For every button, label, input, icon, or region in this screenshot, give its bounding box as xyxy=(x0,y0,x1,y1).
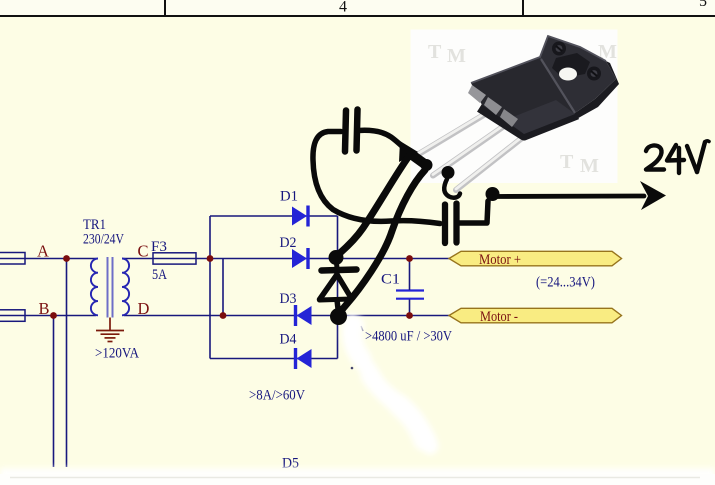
photo watermark TME top-left xyxy=(428,41,617,177)
screw hole white xyxy=(559,68,577,81)
svg-text:C: C xyxy=(138,242,149,261)
frame border line xyxy=(0,15,715,17)
flag Motor + xyxy=(449,251,622,265)
marker capacitor Cx1 left plate xyxy=(345,111,346,152)
junction dot node B xyxy=(50,312,57,319)
marker capacitor Cx1 right plate xyxy=(357,110,358,151)
junction dot node A xyxy=(63,255,70,262)
svg-text:Motor +: Motor + xyxy=(479,252,521,268)
svg-text:Motor -: Motor - xyxy=(480,309,518,325)
white correction smudge xyxy=(350,322,430,446)
svg-text:F3: F3 xyxy=(151,239,167,255)
marker diode cathode bar xyxy=(322,270,357,271)
marker capacitor Cx2 right plate xyxy=(453,204,459,243)
handwritten 24V : digit 2 xyxy=(646,145,664,169)
marker blob at leg 2 xyxy=(408,152,426,165)
stray dot near D4 xyxy=(351,367,354,370)
junction dot after F3 xyxy=(207,255,214,262)
svg-text:M: M xyxy=(580,155,599,177)
marker dot at leg 3 with curl xyxy=(442,166,455,179)
svg-text:C1: C1 xyxy=(381,272,400,288)
fuse F2 (left edge, bottom) xyxy=(0,310,25,322)
svg-text:D4: D4 xyxy=(280,332,297,348)
frame tick 1 xyxy=(164,0,166,15)
front face lower sheen xyxy=(505,100,575,134)
marker wire Cx1 right to leg xyxy=(358,130,411,154)
leg shoulders xyxy=(468,85,486,103)
wire bridge right vertical xyxy=(337,216,339,359)
transistor body (TO-220F package) xyxy=(468,36,619,135)
handwritten 24V : digit 4 xyxy=(667,145,684,161)
svg-text:M: M xyxy=(447,45,466,67)
wire D4 row xyxy=(210,358,338,360)
bottom ledge xyxy=(480,107,577,135)
handwritten 24V : letter V xyxy=(687,146,697,172)
transformer TR1 primary coil xyxy=(91,259,98,316)
front face xyxy=(471,57,575,134)
marker line A leg to bridge top junction xyxy=(337,156,410,256)
marker diode anode lead xyxy=(337,300,339,313)
marker wire loop from Cx1 left to Cx2 xyxy=(313,132,440,224)
screw 2 xyxy=(587,67,601,81)
right dark edge xyxy=(573,61,619,121)
svg-text:5: 5 xyxy=(699,0,707,10)
wire vertical from node A down xyxy=(66,259,68,468)
capacitor C1 symbol xyxy=(396,291,424,299)
wire bridge inner vertical xyxy=(222,259,224,316)
seam xyxy=(541,59,575,113)
frame top band xyxy=(0,0,715,16)
transistor legs xyxy=(413,110,522,190)
marker arrow line to 24V xyxy=(494,194,644,199)
svg-text:4: 4 xyxy=(339,0,347,16)
diode D4 xyxy=(294,348,312,369)
wire bottom net (B/D row) xyxy=(0,315,96,317)
bottom faint line xyxy=(10,477,700,479)
wire vertical from node B down xyxy=(53,316,55,468)
diode D2 xyxy=(292,248,310,269)
wire top net (A/C row) xyxy=(0,258,96,260)
tab face xyxy=(540,36,616,113)
marker arrow head xyxy=(640,181,666,210)
photo of transistor: white background xyxy=(411,30,618,184)
ground symbol xyxy=(96,318,124,342)
fuse F3 xyxy=(153,253,196,264)
marker capacitor Cx2 left plate xyxy=(442,205,448,244)
svg-text:D: D xyxy=(138,299,150,318)
svg-text:>8A/>60V: >8A/>60V xyxy=(249,388,305,404)
frame tick 2 xyxy=(522,0,524,15)
svg-text:A: A xyxy=(37,242,49,261)
wire bridge left vertical xyxy=(209,216,211,359)
fuse F1 (left edge, top) xyxy=(0,253,25,265)
svg-text:230/24V: 230/24V xyxy=(83,232,124,248)
stray tick before >4800 label xyxy=(361,326,363,331)
svg-text:T: T xyxy=(428,41,442,63)
junction dot C1 bottom xyxy=(406,312,413,319)
bottom white band xyxy=(0,468,715,485)
svg-text:>4800 uF / >30V: >4800 uF / >30V xyxy=(365,329,452,345)
marker diode bottom blob xyxy=(330,308,347,325)
svg-text:D2: D2 xyxy=(280,235,297,251)
top edge highlight xyxy=(471,36,606,83)
diode D1 xyxy=(292,206,310,227)
hex boss xyxy=(552,53,590,78)
diode D3 xyxy=(294,305,312,326)
marker output node blob xyxy=(486,187,500,201)
marker diode triangle xyxy=(320,275,338,300)
transformer TR1 secondary coil xyxy=(122,259,129,316)
marker wire Cx2 right elbow up to output node xyxy=(458,201,488,223)
transformer core xyxy=(107,257,109,318)
wire D1 row xyxy=(210,215,338,217)
svg-text:(=24...34V): (=24...34V) xyxy=(536,275,595,291)
flag Motor - xyxy=(449,308,622,323)
svg-text:T: T xyxy=(560,151,574,173)
svg-text:B: B xyxy=(39,299,50,318)
svg-text:5A: 5A xyxy=(152,267,167,283)
junction dot C1 top xyxy=(406,255,413,262)
marker line B leg to bridge bottom junction xyxy=(339,170,425,315)
junction dot D3 row xyxy=(220,312,227,319)
marker diode cathode lead xyxy=(336,258,337,268)
svg-text:D3: D3 xyxy=(280,291,297,307)
marker diode top blob xyxy=(329,250,344,265)
svg-text:D1: D1 xyxy=(280,189,298,205)
svg-text:>120VA: >120VA xyxy=(95,346,139,362)
screw 1 xyxy=(552,42,566,56)
